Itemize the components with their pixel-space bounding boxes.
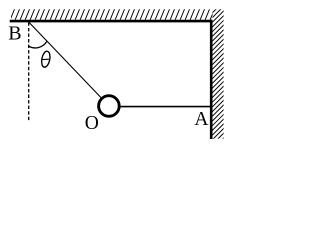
svg-text:A: A — [194, 109, 208, 130]
angle arc — [29, 41, 47, 48]
label theta — [40, 50, 51, 67]
wall hatch — [212, 1, 225, 150]
wall line — [210, 20, 213, 139]
ceiling hatch — [5, 9, 225, 20]
svg-text:O: O — [85, 113, 99, 134]
svg-text:B: B — [8, 23, 21, 45]
dashed vertical reference line from B — [28, 22, 30, 120]
rod O to A — [109, 106, 211, 108]
string B to O — [29, 22, 109, 106]
ball O — [99, 96, 120, 117]
ceiling line — [10, 20, 213, 23]
